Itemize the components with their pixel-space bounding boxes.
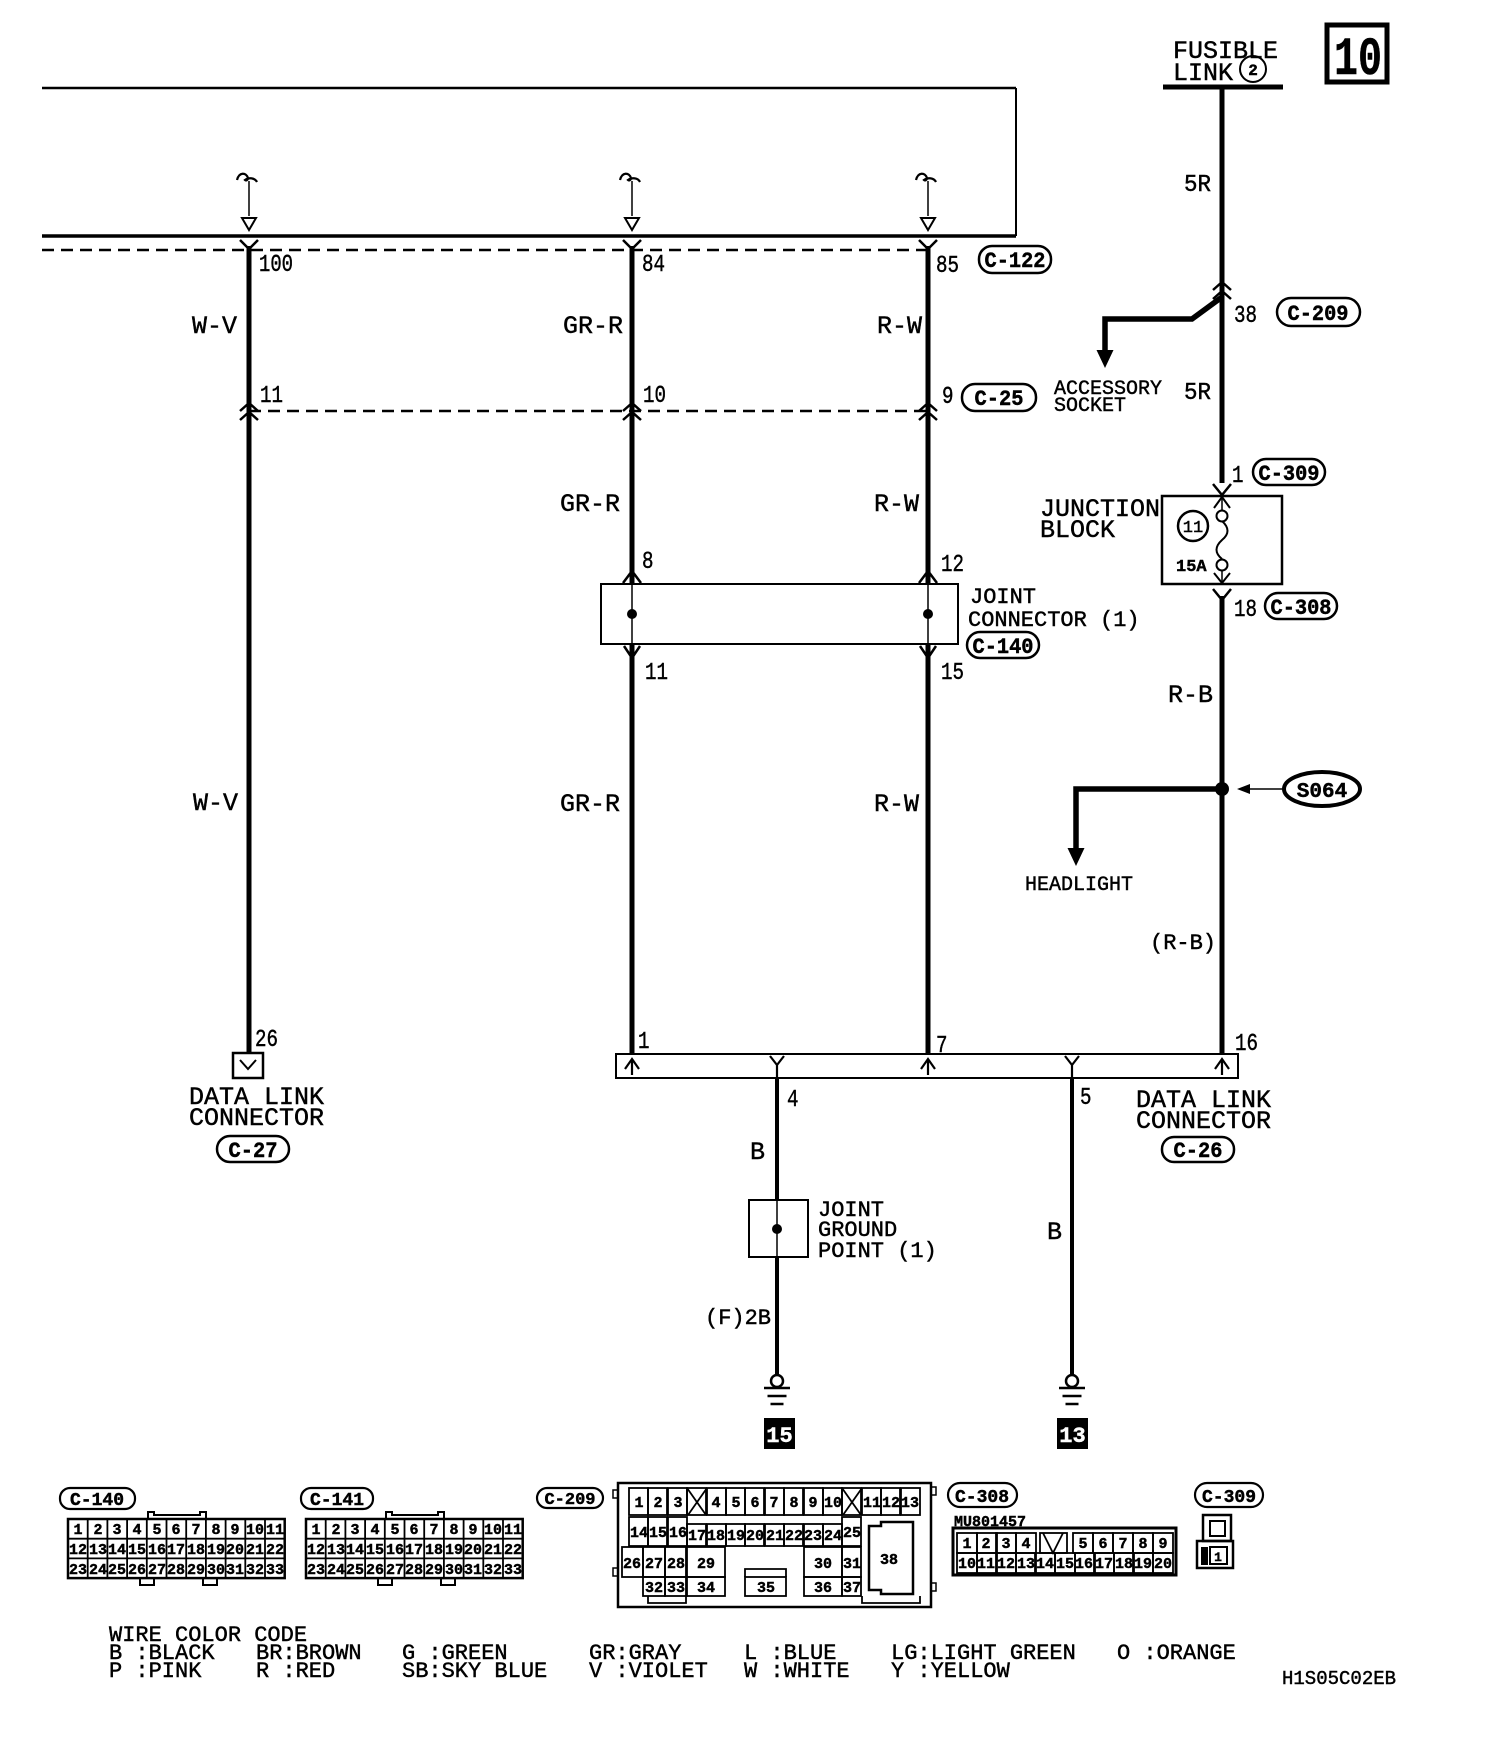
svg-text:12: 12 xyxy=(941,552,964,579)
svg-text:C-209: C-209 xyxy=(544,1491,595,1510)
svg-text:3: 3 xyxy=(112,1522,121,1539)
wire: top bus upper line xyxy=(42,87,1016,90)
connector drop arrow 1 xyxy=(237,174,257,230)
connector capsule C-25 xyxy=(962,384,1036,412)
svg-text:32: 32 xyxy=(484,1562,502,1579)
svg-text:31: 31 xyxy=(843,1556,861,1573)
dashed connector line 2 (C-25) xyxy=(249,410,929,413)
svg-text:4: 4 xyxy=(711,1495,720,1512)
svg-text:26: 26 xyxy=(623,1556,641,1573)
svg-text:18: 18 xyxy=(1234,597,1257,624)
svg-text:C-26: C-26 xyxy=(1174,1139,1223,1164)
svg-text:19: 19 xyxy=(1134,1556,1152,1573)
svg-text:C-308: C-308 xyxy=(955,1488,1009,1508)
svg-text:1: 1 xyxy=(962,1536,971,1553)
connector drop arrow 3 xyxy=(916,174,936,230)
chevron pin 7 in bar xyxy=(921,1059,935,1075)
ground symbol 15 xyxy=(764,1375,790,1404)
svg-text:14: 14 xyxy=(346,1542,364,1559)
svg-text:26: 26 xyxy=(255,1027,278,1054)
svg-text:13: 13 xyxy=(327,1542,345,1559)
svg-text:8: 8 xyxy=(789,1495,798,1512)
svg-text:1: 1 xyxy=(1214,1550,1222,1565)
data link connector C-27 terminal box xyxy=(233,1053,263,1078)
svg-text:P :PINK: P :PINK xyxy=(109,1659,202,1684)
svg-text:25: 25 xyxy=(346,1562,364,1579)
svg-text:34: 34 xyxy=(697,1580,715,1597)
svg-text:R-W: R-W xyxy=(877,312,922,341)
svg-text:28: 28 xyxy=(405,1562,423,1579)
connector pinout C-309 body xyxy=(1197,1515,1233,1568)
svg-text:18: 18 xyxy=(707,1528,725,1545)
svg-text:C-308: C-308 xyxy=(1271,596,1332,621)
chevron pin 1 in bar xyxy=(625,1059,639,1075)
wire W-V (left vertical) xyxy=(247,246,252,1053)
svg-text:W-V: W-V xyxy=(192,312,237,341)
chevron into joint connector (GR-R pin 8) xyxy=(623,571,641,583)
svg-text:1: 1 xyxy=(634,1495,643,1512)
wire: bus lower solid line xyxy=(42,234,1016,238)
svg-text:17: 17 xyxy=(1095,1556,1113,1573)
svg-text:14: 14 xyxy=(108,1542,126,1559)
svg-text:13: 13 xyxy=(1059,1424,1085,1449)
connector capsule C-308 (mid) xyxy=(1265,593,1337,621)
svg-text:5: 5 xyxy=(390,1522,399,1539)
svg-text:15: 15 xyxy=(766,1424,792,1449)
svg-text:14: 14 xyxy=(1036,1556,1054,1573)
svg-text:100: 100 xyxy=(259,252,293,279)
svg-text:16: 16 xyxy=(386,1542,404,1559)
svg-text:18: 18 xyxy=(1115,1556,1133,1573)
svg-text:24: 24 xyxy=(327,1562,345,1579)
svg-text:8: 8 xyxy=(211,1522,220,1539)
svg-text:8: 8 xyxy=(642,549,654,576)
svg-text:15: 15 xyxy=(649,1525,667,1542)
svg-text:4: 4 xyxy=(1021,1536,1030,1553)
connector capsule C-309 (mid) xyxy=(1253,459,1325,487)
connector capsule C-140 (mid) xyxy=(967,632,1039,660)
connector capsule C-140 (bottom) xyxy=(60,1488,135,1511)
svg-text:36: 36 xyxy=(814,1580,832,1597)
svg-text:(F)2B: (F)2B xyxy=(705,1306,771,1331)
wire: bus right vertical xyxy=(1015,88,1017,236)
svg-text:H1S05C02EB: H1S05C02EB xyxy=(1282,1668,1396,1690)
joint connector (1) C-140 box xyxy=(601,584,958,644)
chevron into joint connector (R-W pin 12) xyxy=(919,571,937,583)
svg-text:18: 18 xyxy=(187,1542,205,1559)
svg-text:15A: 15A xyxy=(1176,558,1207,577)
svg-text:C-141: C-141 xyxy=(310,1491,364,1511)
svg-text:W :WHITE: W :WHITE xyxy=(744,1659,850,1684)
fusible link bus bar xyxy=(1163,85,1283,90)
svg-text:12: 12 xyxy=(882,1495,900,1512)
S064 callout arrow xyxy=(1240,788,1284,790)
svg-text:C-140: C-140 xyxy=(70,1491,124,1511)
wire B (pin 4 to joint ground point) xyxy=(775,1078,779,1200)
arrowhead to headlight xyxy=(1068,848,1085,866)
circled 11 (junction block fuse number) xyxy=(1178,511,1208,541)
svg-text:17: 17 xyxy=(167,1542,185,1559)
terminal flare above junction block (pin 1) xyxy=(1213,484,1231,495)
svg-text:R-B: R-B xyxy=(1168,681,1213,710)
svg-text:16: 16 xyxy=(669,1525,687,1542)
svg-text:23: 23 xyxy=(307,1562,325,1579)
wire R-W (third vertical lower) xyxy=(926,644,931,1054)
svg-text:C-27: C-27 xyxy=(229,1139,278,1164)
svg-text:21: 21 xyxy=(246,1542,264,1559)
wire: dashed harness line (connector C-122 boundary) xyxy=(42,249,929,252)
svg-text:1: 1 xyxy=(311,1522,320,1539)
svg-text:14: 14 xyxy=(630,1525,648,1542)
connector capsule C-209 (mid) xyxy=(1277,298,1360,327)
svg-text:28: 28 xyxy=(667,1556,685,1573)
connector capsule C-141 (bottom) xyxy=(301,1488,373,1511)
svg-text:16: 16 xyxy=(148,1542,166,1559)
svg-text:27: 27 xyxy=(148,1562,166,1579)
svg-text:11: 11 xyxy=(1183,519,1203,538)
chevron at junction block bottom xyxy=(1214,573,1230,583)
svg-text:CONNECTOR: CONNECTOR xyxy=(1136,1107,1271,1136)
svg-text:37: 37 xyxy=(843,1580,861,1597)
svg-text:B: B xyxy=(750,1138,765,1167)
svg-text:31: 31 xyxy=(226,1562,244,1579)
svg-text:5R: 5R xyxy=(1184,172,1211,199)
ground symbol 13 xyxy=(1059,1375,1085,1404)
svg-text:30: 30 xyxy=(445,1562,463,1579)
wire B (pin 5 to ground 13) xyxy=(1070,1078,1074,1375)
svg-text:17: 17 xyxy=(405,1542,423,1559)
svg-text:15: 15 xyxy=(941,660,964,687)
svg-text:85: 85 xyxy=(936,253,959,280)
svg-text:9: 9 xyxy=(942,384,954,411)
terminal flare pin 84 xyxy=(623,240,641,249)
svg-text:20: 20 xyxy=(746,1528,764,1545)
svg-text:SB:SKY BLUE: SB:SKY BLUE xyxy=(402,1659,547,1684)
svg-text:13: 13 xyxy=(1017,1556,1035,1573)
svg-text:10: 10 xyxy=(958,1556,976,1573)
circled 2 symbol xyxy=(1240,56,1266,82)
svg-text:10: 10 xyxy=(643,383,666,410)
svg-text:C-122: C-122 xyxy=(985,249,1046,274)
chevron inside junction block top xyxy=(1214,497,1230,508)
svg-text:GR-R: GR-R xyxy=(560,490,620,519)
svg-text:13: 13 xyxy=(901,1495,919,1512)
wire 5R (fusible link down) xyxy=(1220,87,1225,483)
svg-text:B: B xyxy=(1047,1218,1062,1247)
svg-text:26: 26 xyxy=(366,1562,384,1579)
svg-text:4: 4 xyxy=(370,1522,379,1539)
wire R-B (junction block to data link connector) xyxy=(1220,596,1225,1054)
terminal flare below joint connector (pin 11) xyxy=(624,646,640,658)
svg-text:33: 33 xyxy=(266,1562,284,1579)
svg-text:5: 5 xyxy=(152,1522,161,1539)
wire through junction block xyxy=(1221,496,1223,584)
svg-text:9: 9 xyxy=(230,1522,239,1539)
svg-text:2: 2 xyxy=(93,1522,102,1539)
svg-text:7: 7 xyxy=(1118,1536,1127,1553)
svg-text:1: 1 xyxy=(638,1029,650,1056)
S064 oval label xyxy=(1284,772,1360,806)
wire GR-R (middle vertical lower) xyxy=(630,644,635,1054)
svg-text:O :ORANGE: O :ORANGE xyxy=(1117,1641,1236,1666)
svg-text:6: 6 xyxy=(750,1495,759,1512)
svg-text:25: 25 xyxy=(843,1525,861,1542)
svg-text:24: 24 xyxy=(824,1528,842,1545)
wire branch to headlight xyxy=(1076,789,1222,848)
fuse symbol 15A xyxy=(1217,511,1228,571)
svg-text:20: 20 xyxy=(464,1542,482,1559)
svg-text:17: 17 xyxy=(688,1528,706,1545)
svg-text:C-140: C-140 xyxy=(973,635,1034,660)
svg-text:29: 29 xyxy=(697,1556,715,1573)
svg-text:24: 24 xyxy=(89,1562,107,1579)
svg-text:19: 19 xyxy=(727,1528,745,1545)
connector capsule C-122 xyxy=(979,246,1051,274)
svg-text:(R-B): (R-B) xyxy=(1150,931,1216,956)
joint ground point box xyxy=(749,1200,808,1257)
svg-text:10: 10 xyxy=(1334,30,1382,91)
svg-text:9: 9 xyxy=(1158,1536,1167,1553)
svg-text:3: 3 xyxy=(1001,1536,1010,1553)
svg-text:3: 3 xyxy=(350,1522,359,1539)
svg-text:23: 23 xyxy=(69,1562,87,1579)
chevron pin 5 in bar xyxy=(1065,1056,1079,1078)
inline connector chevrons C-209 xyxy=(1213,282,1231,299)
svg-text:15: 15 xyxy=(1056,1556,1074,1573)
svg-text:7: 7 xyxy=(936,1033,948,1060)
ground reference box 13 xyxy=(1057,1418,1088,1449)
svg-text:26: 26 xyxy=(128,1562,146,1579)
inline connector chevrons C-25 on wire W-V xyxy=(240,403,258,420)
inline connector chevrons C-25 on wire R-W xyxy=(919,403,937,420)
svg-text:29: 29 xyxy=(187,1562,205,1579)
svg-text:6: 6 xyxy=(409,1522,418,1539)
wire R-W through joint connector xyxy=(927,584,929,644)
svg-text:11: 11 xyxy=(260,383,283,410)
wire through joint ground point xyxy=(776,1200,778,1257)
svg-text:15: 15 xyxy=(128,1542,146,1559)
svg-text:V :VIOLET: V :VIOLET xyxy=(589,1659,708,1684)
svg-text:16: 16 xyxy=(1075,1556,1093,1573)
terminal flare below junction block (pin 18) xyxy=(1213,589,1231,600)
svg-text:10: 10 xyxy=(824,1495,842,1512)
junction dot in joint connector (GR-R) xyxy=(627,609,637,619)
data link connector bar C-26 xyxy=(616,1054,1238,1078)
svg-text:JOINT: JOINT xyxy=(970,585,1036,610)
svg-text:12: 12 xyxy=(997,1556,1015,1573)
svg-text:18: 18 xyxy=(425,1542,443,1559)
connector capsule C-308 (bottom) xyxy=(948,1483,1017,1508)
svg-text:2: 2 xyxy=(981,1536,990,1553)
junction block box xyxy=(1162,496,1282,584)
svg-text:20: 20 xyxy=(226,1542,244,1559)
svg-text:CONNECTOR (1): CONNECTOR (1) xyxy=(968,608,1140,633)
svg-text:25: 25 xyxy=(108,1562,126,1579)
svg-text:W-V: W-V xyxy=(193,789,238,818)
terminal flare below joint connector (pin 15) xyxy=(920,646,936,658)
connector capsule C-209 (bottom) xyxy=(537,1488,603,1510)
svg-text:20: 20 xyxy=(1154,1556,1172,1573)
connector drop arrow 2 xyxy=(620,174,640,230)
wire R-W (third vertical upper) xyxy=(926,246,931,584)
svg-text:R :RED: R :RED xyxy=(256,1659,335,1684)
svg-text:7: 7 xyxy=(191,1522,200,1539)
svg-text:9: 9 xyxy=(468,1522,477,1539)
svg-text:35: 35 xyxy=(757,1580,775,1597)
svg-text:C-25: C-25 xyxy=(975,387,1024,412)
connector pinout C-140 body xyxy=(68,1512,285,1585)
svg-text:7: 7 xyxy=(429,1522,438,1539)
svg-text:11: 11 xyxy=(863,1495,881,1512)
svg-text:32: 32 xyxy=(246,1562,264,1579)
svg-text:7: 7 xyxy=(769,1495,778,1512)
svg-text:29: 29 xyxy=(425,1562,443,1579)
svg-text:4: 4 xyxy=(132,1522,141,1539)
svg-text:38: 38 xyxy=(1234,303,1257,330)
svg-text:POINT (1): POINT (1) xyxy=(818,1239,937,1264)
svg-text:CONNECTOR: CONNECTOR xyxy=(189,1104,324,1133)
connector pinout C-141 body xyxy=(306,1512,523,1585)
svg-text:5R: 5R xyxy=(1184,380,1211,407)
svg-text:5: 5 xyxy=(1080,1085,1092,1112)
svg-text:33: 33 xyxy=(504,1562,522,1579)
svg-text:28: 28 xyxy=(167,1562,185,1579)
svg-text:15: 15 xyxy=(366,1542,384,1559)
svg-text:22: 22 xyxy=(785,1528,803,1545)
wire GR-R through joint connector xyxy=(631,584,633,644)
junction node S064 xyxy=(1215,782,1229,796)
svg-text:2: 2 xyxy=(653,1495,662,1512)
svg-text:27: 27 xyxy=(386,1562,404,1579)
svg-text:S064: S064 xyxy=(1297,781,1347,804)
svg-text:23: 23 xyxy=(804,1528,822,1545)
terminal flare pin 100 xyxy=(240,240,258,249)
svg-text:30: 30 xyxy=(814,1556,832,1573)
arrowhead to accessory socket xyxy=(1097,350,1114,368)
svg-text:13: 13 xyxy=(89,1542,107,1559)
wire branch to accessory socket xyxy=(1105,297,1222,350)
svg-text:1: 1 xyxy=(1232,463,1244,490)
svg-text:21: 21 xyxy=(484,1542,502,1559)
svg-text:6: 6 xyxy=(1098,1536,1107,1553)
svg-text:BLOCK: BLOCK xyxy=(1040,516,1115,545)
svg-text:1: 1 xyxy=(73,1522,82,1539)
svg-text:5: 5 xyxy=(731,1495,740,1512)
connector pinout C-209 body xyxy=(613,1483,936,1607)
chevron pin 16 in bar xyxy=(1215,1059,1229,1075)
wire GR-R (middle vertical upper) xyxy=(630,246,635,584)
svg-text:10: 10 xyxy=(246,1522,264,1539)
svg-text:31: 31 xyxy=(464,1562,482,1579)
connector capsule C-309 (bottom) xyxy=(1195,1483,1263,1508)
svg-text:C-309: C-309 xyxy=(1202,1488,1256,1508)
svg-text:10: 10 xyxy=(484,1522,502,1539)
svg-text:30: 30 xyxy=(207,1562,225,1579)
svg-text:2: 2 xyxy=(331,1522,340,1539)
svg-text:11: 11 xyxy=(977,1556,995,1573)
svg-text:R-W: R-W xyxy=(874,490,919,519)
svg-text:22: 22 xyxy=(266,1542,284,1559)
svg-text:SOCKET: SOCKET xyxy=(1054,395,1126,418)
wire (F)2B to ground xyxy=(775,1257,779,1375)
svg-text:LINK: LINK xyxy=(1173,59,1233,88)
connector pinout C-308 body xyxy=(953,1514,1176,1575)
svg-text:4: 4 xyxy=(787,1087,799,1114)
svg-text:2: 2 xyxy=(1248,62,1258,80)
junction dot in joint connector (R-W) xyxy=(923,609,933,619)
svg-text:9: 9 xyxy=(808,1495,817,1512)
svg-text:3: 3 xyxy=(673,1495,682,1512)
junction dot in joint ground point xyxy=(772,1224,782,1234)
svg-text:19: 19 xyxy=(445,1542,463,1559)
svg-text:84: 84 xyxy=(642,252,665,279)
svg-text:21: 21 xyxy=(766,1528,784,1545)
svg-text:GR-R: GR-R xyxy=(563,312,623,341)
ground reference box 15 xyxy=(764,1418,795,1449)
page number box 10 xyxy=(1327,25,1387,91)
svg-text:8: 8 xyxy=(1138,1536,1147,1553)
svg-text:11: 11 xyxy=(504,1522,522,1539)
svg-text:HEADLIGHT: HEADLIGHT xyxy=(1025,874,1133,897)
svg-text:R-W: R-W xyxy=(874,790,919,819)
svg-text:C-309: C-309 xyxy=(1259,462,1320,487)
inline connector chevrons C-25 on wire GR-R xyxy=(623,403,641,420)
svg-text:27: 27 xyxy=(645,1556,663,1573)
terminal flare pin 85 xyxy=(919,240,937,249)
svg-text:5: 5 xyxy=(1078,1536,1087,1553)
svg-text:12: 12 xyxy=(307,1542,325,1559)
svg-text:GR-R: GR-R xyxy=(560,790,620,819)
svg-text:12: 12 xyxy=(69,1542,87,1559)
svg-text:22: 22 xyxy=(504,1542,522,1559)
svg-text:8: 8 xyxy=(449,1522,458,1539)
svg-text:Y :YELLOW: Y :YELLOW xyxy=(891,1659,1011,1684)
svg-text:11: 11 xyxy=(266,1522,284,1539)
svg-text:33: 33 xyxy=(667,1580,685,1597)
svg-text:38: 38 xyxy=(880,1552,898,1569)
chevron pin 4 in bar xyxy=(770,1056,784,1078)
svg-text:C-209: C-209 xyxy=(1288,302,1349,327)
svg-text:6: 6 xyxy=(171,1522,180,1539)
svg-text:11: 11 xyxy=(645,660,668,687)
svg-text:32: 32 xyxy=(645,1580,663,1597)
wire color code legend xyxy=(109,1623,1236,1684)
svg-text:19: 19 xyxy=(207,1542,225,1559)
